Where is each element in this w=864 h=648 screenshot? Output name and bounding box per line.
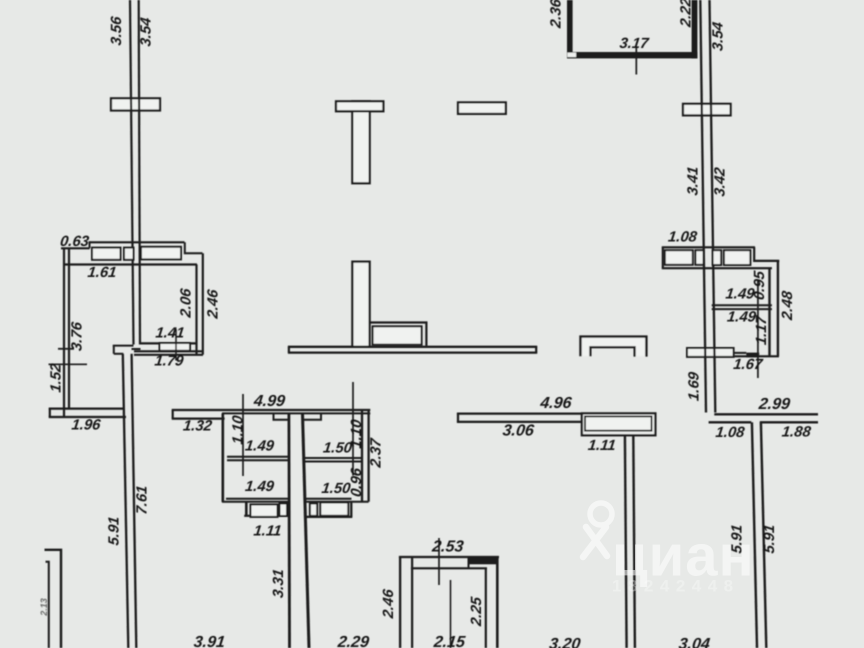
wall descending from band: [625, 435, 635, 648]
black lintel bottom room: [470, 556, 498, 564]
window rect 1 of left band: [92, 248, 121, 260]
window rect 1 of right band: [665, 250, 693, 265]
svg-text:1.50: 1.50: [321, 481, 352, 497]
wall floating lintel piece: [458, 102, 506, 114]
bench box inner: [373, 326, 422, 344]
sill right step: [350, 502, 352, 517]
band right elbow: [754, 247, 779, 261]
svg-text:4.99: 4.99: [252, 392, 286, 410]
svg-text:1.08: 1.08: [715, 425, 746, 441]
wall step at band right: [185, 242, 203, 253]
svg-text:1.41: 1.41: [155, 326, 186, 342]
svg-text:1.11: 1.11: [253, 524, 283, 540]
svg-text:2.46: 2.46: [381, 588, 397, 620]
pi-shape fill: [581, 337, 647, 357]
wall cells row separator left: [227, 457, 288, 461]
joint tick on left wall: [58, 348, 74, 350]
svg-text:3.17: 3.17: [619, 36, 650, 52]
wall cells separator left descending: [287, 413, 290, 648]
wall 3.06 thin: [457, 414, 582, 422]
dimension tick 4.99 left: [242, 394, 244, 476]
wall step at band left: [89, 241, 91, 248]
svg-text:3.54: 3.54: [711, 21, 727, 52]
wall 1.32 bar: [172, 410, 225, 419]
wall T-piece stem top middle: [352, 101, 369, 183]
room bottom-middle outer right: [496, 557, 499, 648]
svg-text:1.49: 1.49: [244, 479, 275, 495]
svg-text:1.11: 1.11: [587, 438, 617, 454]
svg-text:2.06: 2.06: [178, 287, 194, 319]
wall corner bottom-left inner: [46, 562, 49, 648]
svg-text:1.88: 1.88: [781, 425, 812, 441]
svg-text:1.10: 1.10: [231, 414, 247, 445]
window cross bar lower on right-main wall: [687, 348, 734, 357]
wall bottom of room 1.79: [134, 351, 203, 355]
svg-text:3.91: 3.91: [193, 633, 226, 648]
wall 1.96: [49, 409, 126, 417]
svg-text:1.61: 1.61: [87, 265, 118, 281]
room bottom-middle outer left: [399, 557, 401, 648]
watermark pin: [583, 503, 612, 557]
wall cells separator right descending: [303, 413, 310, 648]
svg-text:2.29: 2.29: [336, 633, 370, 648]
svg-text:3.20: 3.20: [548, 635, 581, 648]
wall right-main: [700, 0, 715, 413]
svg-text:3.54: 3.54: [139, 17, 155, 48]
wall cells block left: [222, 413, 225, 502]
room bottom-middle outer top: [399, 556, 499, 558]
shaft corner notch: [567, 53, 576, 57]
sill right bottom: [306, 516, 352, 518]
dimension tick 1.52: [49, 363, 88, 365]
wall top of right rooms: [662, 267, 772, 269]
bench stem outline: [352, 262, 369, 347]
dimension leader 1.41: [175, 329, 177, 361]
wall outer left of room 1.61: [63, 248, 65, 417]
wall separator of right rooms: [712, 305, 772, 309]
sill left window 2: [280, 504, 288, 517]
svg-text:2.37: 2.37: [369, 437, 385, 469]
wall thick shaft left: [567, 0, 573, 54]
leader line through 1.67: [757, 280, 759, 378]
wall T-piece bar top middle: [336, 101, 383, 111]
wall inner right of room 2.06: [195, 265, 197, 355]
leader line 2.53: [438, 538, 440, 585]
wall left-main upper segment: [130, 0, 140, 345]
bench stem fill: [352, 261, 369, 347]
svg-text:2.53: 2.53: [430, 538, 464, 556]
wall right long: [752, 422, 766, 648]
wall cells bottom right pair: [304, 499, 352, 502]
wall black segment right rooms: [746, 353, 759, 358]
wall outer right of right rooms: [777, 261, 779, 357]
pi-shape outer: [581, 337, 647, 357]
window rect 3 of left band: [141, 247, 181, 260]
wall top of rooms under band: [63, 263, 197, 265]
leader line 3.17: [635, 48, 637, 75]
svg-text:3.06: 3.06: [502, 421, 536, 439]
svg-text:5.91: 5.91: [762, 524, 778, 555]
wall top edge of right window band: [662, 246, 755, 248]
window sill of room 1.41: [160, 343, 191, 351]
wall jog at main wall doorway: [113, 346, 141, 354]
pi-shape inner: [590, 347, 634, 356]
wall thick shaft right: [692, 0, 698, 59]
svg-text:1.67: 1.67: [732, 357, 763, 373]
window rect 2 of right band: [695, 250, 703, 265]
wall 2.99 bottom line left: [709, 421, 752, 423]
svg-text:3.56: 3.56: [109, 15, 125, 46]
window cross bar on left-main wall: [111, 98, 160, 110]
svg-text:3.41: 3.41: [685, 166, 701, 197]
wall bottom of right rooms: [734, 355, 779, 357]
dimension tick 4.99 right: [352, 382, 354, 476]
wall left-main lower segment: [123, 354, 137, 648]
svg-text:3.31: 3.31: [271, 568, 287, 599]
sill right window 1: [310, 504, 317, 516]
svg-text:1.69: 1.69: [687, 370, 703, 401]
step line right rooms bottom: [734, 352, 747, 354]
window rect 4 of right band: [724, 250, 751, 265]
wall inner right of right rooms: [768, 269, 770, 356]
window band 1.11 inner: [585, 416, 652, 430]
svg-text:7.61: 7.61: [135, 485, 151, 516]
svg-text:3.76: 3.76: [70, 320, 86, 351]
sill right window 2: [320, 503, 348, 516]
svg-text:3.04: 3.04: [678, 635, 711, 648]
svg-text:2.15: 2.15: [432, 633, 467, 648]
wall 2.99 bottom line right: [760, 421, 818, 423]
band left cap: [662, 247, 664, 268]
svg-text:2.46: 2.46: [206, 288, 222, 320]
svg-text:1.17: 1.17: [754, 314, 770, 345]
svg-text:0.96: 0.96: [349, 466, 365, 497]
wall cells bottom left pair: [222, 499, 288, 502]
wall inner left of room 1.61: [68, 249, 70, 409]
room bottom-middle inner left: [411, 557, 413, 648]
svg-text:2.36: 2.36: [549, 0, 565, 30]
svg-text:18242448: 18242448: [612, 577, 740, 596]
window rect 2 of left band: [124, 248, 134, 260]
room bottom-middle inner right: [485, 568, 487, 648]
wall cells row separator right: [304, 458, 362, 462]
sill left window 1: [251, 505, 278, 517]
svg-text:2.25: 2.25: [469, 595, 485, 627]
svg-text:4.96: 4.96: [538, 394, 573, 412]
svg-text:1.79: 1.79: [154, 354, 185, 370]
svg-text:1.10: 1.10: [349, 418, 365, 449]
window cross bar on right-main wall: [683, 104, 731, 116]
wall corner bottom-left outer: [45, 550, 62, 648]
svg-text:2.48: 2.48: [780, 289, 796, 321]
wall thick shaft bottom: [567, 52, 697, 58]
wall outer right of room 2.06: [202, 253, 204, 354]
bench box outer: [370, 323, 427, 346]
wall 0.63 segment: [61, 247, 90, 249]
window rect 3 of right band: [713, 250, 722, 265]
svg-text:1.96: 1.96: [71, 418, 102, 434]
leader line 2.15: [450, 580, 452, 648]
svg-text:2.99: 2.99: [757, 395, 791, 413]
svg-text:1.49: 1.49: [244, 439, 275, 455]
notch cell1: [274, 413, 289, 419]
room bottom-middle inner top: [411, 567, 487, 569]
svg-text:1.08: 1.08: [667, 229, 698, 245]
sill left step: [245, 502, 248, 516]
svg-text:2.22: 2.22: [679, 0, 695, 29]
wall 2.99 top line: [714, 413, 818, 415]
wall inner bottom of room 2.06: [140, 342, 195, 344]
svg-text:0.63: 0.63: [59, 234, 90, 250]
window band 1.11 outer: [582, 413, 656, 435]
svg-text:0.95: 0.95: [752, 269, 768, 300]
svg-text:1.32: 1.32: [182, 419, 213, 435]
notch cell2: [304, 413, 322, 419]
svg-text:3.42: 3.42: [713, 166, 729, 197]
sill right connector: [351, 501, 368, 503]
wall cells block right: [362, 410, 369, 502]
svg-text:2.13: 2.13: [39, 598, 49, 617]
wall top edge of left window band: [90, 241, 185, 243]
svg-text:1.52: 1.52: [49, 362, 65, 393]
window divider bottom room: [468, 557, 470, 568]
svg-text:5.91: 5.91: [107, 516, 123, 547]
wall cells block top: [222, 410, 370, 413]
bench long bar: [288, 347, 537, 353]
sill left bottom: [244, 515, 288, 517]
